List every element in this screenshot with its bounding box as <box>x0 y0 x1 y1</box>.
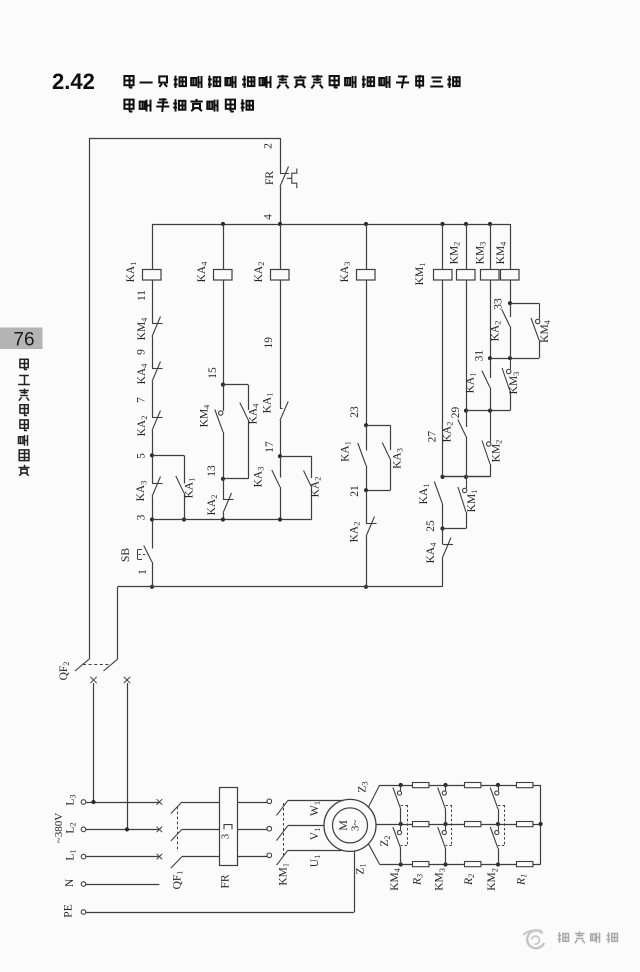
wire L1 <box>86 854 162 860</box>
junction on bus4 x=223.0 <box>221 222 225 226</box>
wire KM1 to bus1 <box>442 558 444 587</box>
wire KM1 to motor U1 <box>288 851 342 868</box>
contactor KM1 main contacts <box>267 799 291 886</box>
sidebar vertical text <box>18 359 30 475</box>
motor M 3~ <box>324 799 376 851</box>
contact KA1 NO (KM1 rung) <box>418 482 443 529</box>
wire QF1 to FR box (L1) <box>182 856 220 858</box>
contact KM2 NO self-hold <box>443 411 504 477</box>
svg-text:29: 29 <box>450 407 462 419</box>
wire to node 3 <box>136 497 153 521</box>
node A junction (KM1/hold) <box>440 475 468 479</box>
wire FR box to KM1 (L3) <box>238 802 268 804</box>
junction branch4 bus1 <box>364 585 368 589</box>
node 29 junction <box>450 407 510 419</box>
relay coil KA3 <box>339 262 375 283</box>
wire branch3 coil top <box>280 224 282 270</box>
wire 11 <box>136 281 153 324</box>
wire QF2 pole1 to L3 <box>93 683 95 802</box>
contact KA3 NO (branch4 parallel) <box>366 443 405 491</box>
contact KM3 NO self-hold <box>502 358 521 410</box>
contactor KM4 rotor contacts <box>389 783 408 891</box>
svg-text:13: 13 <box>206 465 218 477</box>
terminal N <box>64 878 86 887</box>
wire branch2 bottom <box>223 513 225 520</box>
pushbutton SB <box>120 520 153 563</box>
wire 9 <box>136 337 153 369</box>
contact KA1 NO (hold, branch1) <box>176 476 197 520</box>
node 17 junction <box>278 454 282 458</box>
node 15 junction <box>221 383 225 387</box>
watermark logo <box>523 930 544 948</box>
svg-text:11: 11 <box>136 290 148 301</box>
svg-text:33: 33 <box>493 298 505 310</box>
svg-text:19: 19 <box>263 337 275 349</box>
wire branch2 top <box>223 224 225 270</box>
breaker QF2 <box>58 587 118 681</box>
contactor coil KM3 <box>475 242 500 280</box>
svg-text:15: 15 <box>207 367 219 379</box>
node 25 junction <box>425 520 466 532</box>
junction branch3 bus3 <box>278 517 282 521</box>
terminal L1 <box>65 849 86 860</box>
node 3 junctions <box>150 517 186 521</box>
rotor lead Z3 <box>357 781 541 807</box>
bus 4 horizontal <box>152 224 510 226</box>
wire branch1 top <box>152 224 154 270</box>
contactor coil KM4 <box>495 241 519 280</box>
resistor R2 (three phases) <box>463 783 481 886</box>
rotor lead Z2 <box>376 825 541 847</box>
node 13 junction <box>206 465 248 481</box>
title line 2 (Chinese) <box>124 98 253 112</box>
wire N <box>86 884 159 886</box>
wire 5 <box>136 431 153 459</box>
wire 17 <box>264 420 281 456</box>
wire KM4 top <box>510 224 512 270</box>
wire 19 <box>263 281 281 409</box>
wire 2 segment <box>280 138 282 173</box>
junction branch2 bus3 <box>221 517 225 521</box>
wire FR box to KM1 (L1) <box>238 856 268 858</box>
svg-text:2: 2 <box>263 143 275 149</box>
wire left rail vertical <box>89 138 91 659</box>
wire node23 to parallel <box>366 425 391 450</box>
node 31 junction <box>474 350 540 362</box>
contact KA1 NO (KM3 rung) <box>465 358 491 410</box>
node 4 label <box>263 214 275 220</box>
svg-text:7: 7 <box>136 397 148 403</box>
svg-text:3~: 3~ <box>350 820 362 832</box>
svg-text:17: 17 <box>264 441 276 453</box>
svg-text:3: 3 <box>136 514 148 520</box>
title number 2.42 <box>52 69 95 94</box>
contact KM4 NO circle (branch2) <box>199 385 224 479</box>
node 23 junction <box>364 423 368 427</box>
label ~380V <box>53 813 65 843</box>
contact KM1 NO self-hold <box>458 477 479 529</box>
contactor KM3 rotor contacts <box>434 783 452 891</box>
relay coil KA4 <box>196 261 232 283</box>
wire 1 (SB to bus1) <box>137 562 153 587</box>
wire KM1 top <box>442 224 444 270</box>
svg-text:FR: FR <box>220 874 232 888</box>
wire KM1 to motor W1 <box>288 801 344 817</box>
node 5 junction <box>150 453 154 457</box>
svg-text:23: 23 <box>349 406 361 418</box>
bus 3 horizontal <box>152 519 312 521</box>
svg-text:21: 21 <box>349 485 361 497</box>
title line 1 (Chinese) <box>124 75 459 88</box>
wire PE <box>86 912 354 914</box>
watermark text <box>558 931 618 943</box>
contact KA3 NO (branch3) <box>253 456 281 519</box>
resistor R1 (three phases) <box>515 783 533 886</box>
wire node17 to parallel <box>280 456 312 478</box>
contact KA2 NC (branch1) <box>136 411 163 437</box>
junction on bus4 x=366.0 <box>364 222 368 226</box>
QF2 terminal x-marks <box>90 677 130 683</box>
rotor lead Z1 <box>355 844 541 875</box>
svg-text:M: M <box>336 820 350 831</box>
wire FR box to KM1 (L2) <box>238 829 268 831</box>
star point <box>539 785 543 865</box>
contact KA4 NC (KM1 rung) <box>425 529 453 564</box>
wire branch4 top <box>366 224 368 270</box>
node 33 junction <box>493 298 540 310</box>
thermal relay FR box <box>220 788 238 889</box>
junction QF2-L2 <box>125 827 129 831</box>
contact KM4 NO self-hold <box>531 303 552 358</box>
svg-text:SB: SB <box>120 548 132 562</box>
wire QF1 to FR box (L2) <box>182 829 220 831</box>
svg-text:5: 5 <box>136 453 148 459</box>
contact KA4 NO (branch2 parallel) <box>240 403 261 479</box>
wire KM4 to node33 <box>510 281 512 304</box>
svg-text:25: 25 <box>425 520 437 532</box>
svg-text:27: 27 <box>427 431 439 443</box>
wire 23 <box>349 281 367 426</box>
contactor KM2 rotor contacts <box>486 783 504 891</box>
contact KA2 NC (branch2) <box>206 479 234 515</box>
contactor coil KM2 <box>449 242 476 280</box>
node 21 junction <box>349 466 368 497</box>
wire KM3 to node31 <box>490 281 492 359</box>
contact KA2 NC (branch4) <box>349 490 377 542</box>
svg-text:~380V: ~380V <box>53 813 65 843</box>
svg-text:31: 31 <box>474 350 486 362</box>
wire node15 to parallel <box>223 385 249 411</box>
wire hold row A extension <box>466 476 490 478</box>
wire 7 <box>136 382 153 418</box>
svg-text:9: 9 <box>136 349 148 355</box>
contact KA4 NC (branch1) <box>136 362 163 385</box>
terminal L2 <box>65 822 86 833</box>
junction on bus4 x=466.0 <box>464 222 468 226</box>
wire L2 <box>86 827 162 833</box>
junction QF2-L3 <box>91 800 95 804</box>
svg-text:3: 3 <box>220 834 231 839</box>
wire KM1 to motor V1 <box>288 826 324 841</box>
contact KA2 NO (KM4 rung) <box>490 303 511 358</box>
wire KM3 top <box>490 224 492 270</box>
terminal PE <box>63 904 86 917</box>
svg-text:76: 76 <box>13 330 34 351</box>
terminal L3 <box>65 794 86 805</box>
junction on bus4 x=280.0 <box>278 222 282 226</box>
contact KA2 NO (branch3 parallel) <box>304 471 323 520</box>
contact KA1 NO (branch4) <box>340 425 367 465</box>
junction on bus4 x=442.5 <box>440 222 444 226</box>
wire PE to motor frame <box>354 851 356 912</box>
contactor coil KM1 <box>414 263 452 286</box>
wire FR to bus4 <box>280 187 282 225</box>
contact KA1 NO (branch3) <box>262 393 289 421</box>
junction on bus4 x=490.0 <box>488 222 492 226</box>
bus 1 horizontal <box>118 586 443 588</box>
wire L3 <box>86 799 162 805</box>
wire branch4 bottom <box>366 537 368 587</box>
resistor R3 (three phases) <box>411 783 429 886</box>
wire 15 <box>207 281 224 385</box>
relay coil KA1 <box>125 262 161 283</box>
node 2 label <box>263 143 275 149</box>
thermal relay FR contact <box>264 167 297 189</box>
junction SB on bus1 <box>150 585 154 589</box>
contact KM4 NC (branch1) <box>136 317 163 341</box>
wire top rail <box>89 138 280 140</box>
breaker QF1 <box>171 802 185 889</box>
contact KA3 NC (branch1) <box>135 455 162 501</box>
svg-text:N: N <box>64 878 76 887</box>
sidebar page number box <box>0 328 43 351</box>
wire QF2 pole2 to L2 <box>127 683 129 829</box>
wire KM2 to node29 <box>466 281 468 411</box>
svg-text:1: 1 <box>137 569 149 575</box>
svg-text:2.42: 2.42 <box>52 69 95 94</box>
contact KA2 NO (KM2 rung) <box>442 411 467 477</box>
svg-text:FR: FR <box>264 171 276 185</box>
relay coil KA2 <box>253 262 289 283</box>
svg-text:PE: PE <box>63 904 75 917</box>
wire 27 <box>427 281 443 477</box>
svg-text:4: 4 <box>263 214 275 220</box>
wire QF1 to FR box (L3) <box>182 802 220 804</box>
wire node5 to parallel <box>152 455 185 483</box>
wire KM2 top <box>466 224 468 270</box>
